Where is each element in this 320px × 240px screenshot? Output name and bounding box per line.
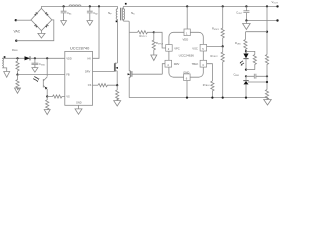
bridge rectifier diamond bbox=[31, 8, 52, 30]
svg-text:UCC28740: UCC28740 bbox=[70, 46, 90, 51]
resistor RLED bbox=[244, 40, 247, 52]
node bulk-CB2 bbox=[89, 5, 91, 7]
wire HV startup from bulk rail bbox=[93, 6, 100, 58]
node cs bbox=[116, 84, 118, 86]
node vpc bbox=[153, 31, 155, 33]
node vdd24636 bbox=[186, 5, 188, 7]
node vsc bbox=[222, 45, 224, 47]
ground CB2 bbox=[87, 21, 93, 26]
pin box VDD bbox=[183, 29, 191, 41]
phase dot secondary bbox=[125, 3, 127, 5]
resistor RBIAS bbox=[253, 55, 256, 70]
wire rled branch bbox=[245, 32, 267, 40]
transformer secondary winding bbox=[123, 6, 124, 19]
terminal vout+ bbox=[276, 5, 278, 7]
resistor RLC bbox=[98, 84, 117, 87]
wire ref line bbox=[248, 76, 267, 89]
node rvsc-top bbox=[222, 5, 224, 7]
resistor RVSC1 bbox=[221, 6, 224, 46]
transistor Q2 SR fet bbox=[128, 32, 163, 97]
svg-text:HV: HV bbox=[88, 57, 92, 60]
wire DRV to gate bbox=[93, 70, 115, 72]
pin box GND bbox=[183, 70, 190, 80]
return line bbox=[246, 20, 277, 22]
ground bridge minus bbox=[38, 31, 45, 38]
capacitor CB2 bbox=[87, 6, 93, 20]
ground CVDD bbox=[32, 68, 38, 73]
ground RFB4 bbox=[15, 88, 21, 93]
diode DVDD bbox=[25, 56, 31, 60]
node vdd-opto bbox=[46, 57, 48, 59]
bridge diode D-botleft bbox=[34, 24, 38, 28]
opto LED bbox=[240, 51, 249, 69]
ground RVPC2 bbox=[151, 55, 157, 61]
node cout-gnd bbox=[245, 19, 247, 21]
ground IC28740 bbox=[75, 105, 82, 114]
ground RVS bbox=[44, 110, 50, 115]
optocoupler phototransistor bbox=[33, 58, 47, 96]
node fb bbox=[16, 74, 18, 76]
node gnd-rtblk bbox=[211, 97, 213, 99]
node bulk-CB1 bbox=[63, 5, 65, 7]
node opto emitter bbox=[46, 95, 48, 97]
pin box DRV bbox=[165, 60, 180, 67]
capacitor COUT bbox=[243, 6, 249, 20]
node divider mid bbox=[266, 75, 268, 77]
wire VDD pin up bbox=[186, 6, 188, 29]
bridge diode D-topright bbox=[45, 12, 49, 16]
svg-text:VDD: VDD bbox=[183, 37, 189, 41]
shunt regulator TL431 bbox=[243, 76, 248, 97]
resistor RVS-h bbox=[47, 95, 65, 98]
AC source terminal upper bbox=[15, 19, 17, 21]
node divider-top bbox=[266, 5, 268, 7]
svg-text:VAC: VAC bbox=[14, 30, 21, 34]
ground NA bbox=[4, 72, 10, 78]
node vdd-cvdd bbox=[34, 57, 36, 59]
bridge diode D-topleft bbox=[34, 12, 38, 16]
ground COUT bbox=[243, 21, 251, 30]
node led-bias bbox=[245, 69, 247, 71]
resistor RVSC2 bbox=[221, 46, 224, 97]
resistor RVPC1 bbox=[138, 31, 154, 34]
pin box VPC bbox=[166, 45, 180, 52]
node gnd-rvsc bbox=[222, 97, 224, 99]
node ref-right bbox=[266, 81, 268, 83]
ground RCS bbox=[114, 98, 121, 106]
capacitor CB1 bbox=[61, 6, 67, 20]
svg-text:VS: VS bbox=[66, 96, 70, 99]
wire CS pin bbox=[93, 84, 99, 86]
bridge diode D-botright bbox=[45, 24, 49, 28]
svg-text:TBLK: TBLK bbox=[192, 62, 199, 66]
wire bias branch bbox=[246, 51, 255, 54]
wire primary bottom to Q1 drain bbox=[117, 20, 119, 64]
UCC24636 IC outline bbox=[169, 32, 203, 77]
transformer core bbox=[121, 8, 123, 21]
phase dot aux bbox=[4, 56, 6, 58]
ground rail end bbox=[264, 98, 272, 105]
wire switch node run bbox=[129, 31, 137, 33]
node gnd-tl431 bbox=[245, 97, 247, 99]
capacitor CFB bbox=[246, 74, 267, 79]
wire bridge top to bulk rail bbox=[40, 6, 42, 8]
svg-text:DRV: DRV bbox=[85, 71, 91, 74]
transistor Q1 primary fet bbox=[114, 63, 118, 85]
svg-text:CS: CS bbox=[88, 84, 92, 87]
resistor RFB1 bbox=[265, 55, 268, 77]
bulk rail primary bbox=[41, 5, 117, 7]
pin box TBLK bbox=[192, 60, 207, 67]
transformer primary winding bbox=[116, 6, 117, 19]
resistor RFB4 bbox=[16, 75, 19, 90]
svg-text:VDD: VDD bbox=[66, 57, 71, 60]
terminal vout- bbox=[276, 19, 278, 21]
node rled tap bbox=[266, 31, 268, 33]
vout rail secondary bbox=[123, 5, 277, 7]
wire GND pin down bbox=[186, 81, 188, 98]
AC source terminal lower bbox=[15, 40, 17, 42]
svg-text:UCC24636: UCC24636 bbox=[179, 53, 195, 57]
svg-text:VPC: VPC bbox=[174, 47, 180, 51]
wire AC1 to bridge left vertex bbox=[16, 19, 31, 21]
UCC28740 IC box bbox=[65, 51, 93, 105]
phase dot primary bbox=[116, 21, 118, 23]
ground CB1 bbox=[61, 21, 67, 26]
svg-text:VSC: VSC bbox=[192, 47, 198, 51]
resistor RFB3 bbox=[16, 58, 19, 74]
wire bias bottom bbox=[246, 69, 255, 71]
vdd line bbox=[2, 57, 24, 59]
secondary gnd rail bbox=[129, 97, 268, 99]
node led top bbox=[245, 50, 247, 52]
aux winding NA bbox=[2, 58, 7, 71]
wire DRV to SR gate bbox=[162, 64, 165, 74]
wire divider drop bbox=[266, 6, 268, 54]
wire AC2 bottom run bbox=[16, 20, 54, 41]
resistor RVS-v bbox=[46, 97, 49, 110]
node bulk-HV bbox=[98, 5, 100, 7]
capacitor CVDD bbox=[32, 58, 39, 67]
svg-text:FB: FB bbox=[66, 74, 70, 77]
wire TBLK bbox=[207, 64, 213, 81]
resistor RFB2 bbox=[265, 90, 268, 100]
resistor RTBLK bbox=[211, 81, 214, 98]
svg-text:GND: GND bbox=[76, 102, 82, 105]
wire vpc to pin bbox=[154, 32, 166, 48]
node vdd-rfb bbox=[16, 57, 18, 59]
resistor RCS bbox=[116, 85, 119, 100]
resistor RVPC2 bbox=[152, 32, 155, 55]
inductor LF bbox=[69, 5, 81, 6]
svg-text:DRV: DRV bbox=[174, 62, 180, 66]
svg-text:GND: GND bbox=[183, 70, 189, 74]
pin box VSC bbox=[192, 44, 206, 51]
wire FB to pin bbox=[18, 74, 65, 76]
node gnd-ic bbox=[186, 97, 188, 99]
wire secondary bottom to switch node bbox=[123, 20, 129, 33]
node cout bbox=[245, 5, 247, 7]
node cfb-left bbox=[245, 75, 247, 77]
wire VSC pin bbox=[207, 45, 223, 47]
